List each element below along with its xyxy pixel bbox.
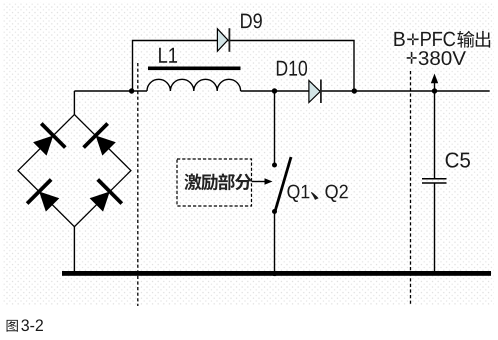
wire switch branch lower — [274, 212, 276, 274]
bridge diode bottom-right — [84, 178, 123, 217]
capacitor C5 plates — [422, 179, 447, 183]
switch bottom contact dot — [272, 209, 277, 214]
arrow from box to switch — [252, 178, 273, 185]
junction dot D9 right — [352, 88, 357, 93]
wire bridge bottom vertical — [73, 227, 75, 272]
inductor L1 core bar — [148, 67, 241, 71]
wire bridge top vertical — [73, 91, 75, 115]
label D9 — [241, 14, 252, 28]
label Q1、Q2 — [287, 185, 299, 202]
diode D10 — [309, 80, 322, 104]
dashed vertical line right (x=411) — [410, 71, 412, 306]
bridge diode top-left — [28, 122, 67, 161]
label 图3-2 — [7, 320, 18, 332]
wire switch branch upper — [274, 91, 276, 165]
dashed box excitation section — [177, 159, 252, 206]
switch top contact dot — [272, 163, 277, 168]
label L1 — [159, 48, 167, 63]
label 激励部分 — [184, 173, 201, 190]
output arrow up — [431, 74, 438, 92]
capacitor C5 wire upper — [434, 91, 436, 178]
junction dot switch branch — [272, 88, 277, 93]
switch blade Q1/Q2 — [275, 157, 291, 212]
label C5 — [446, 152, 459, 167]
diode D9 — [217, 28, 230, 52]
bridge rectifier diamond — [18, 115, 131, 227]
dashed vertical line left (x=138) — [137, 63, 139, 306]
label D10 — [277, 61, 287, 76]
wire D9 branch (up-over-down loop) — [133, 41, 355, 92]
junction dot L1/D9 left — [129, 88, 134, 93]
label B+PFC输出 — [394, 32, 404, 46]
bridge diode top-right — [82, 122, 121, 161]
label +380V — [407, 52, 417, 64]
junction dot bus/switch — [272, 271, 277, 276]
capacitor C5 wire lower — [434, 184, 436, 272]
junction dot output/C5 — [432, 88, 437, 93]
ground bus thick line — [62, 271, 491, 276]
wire main horizontal line with inductor winding — [74, 79, 489, 91]
bridge diode bottom-left — [26, 178, 65, 217]
